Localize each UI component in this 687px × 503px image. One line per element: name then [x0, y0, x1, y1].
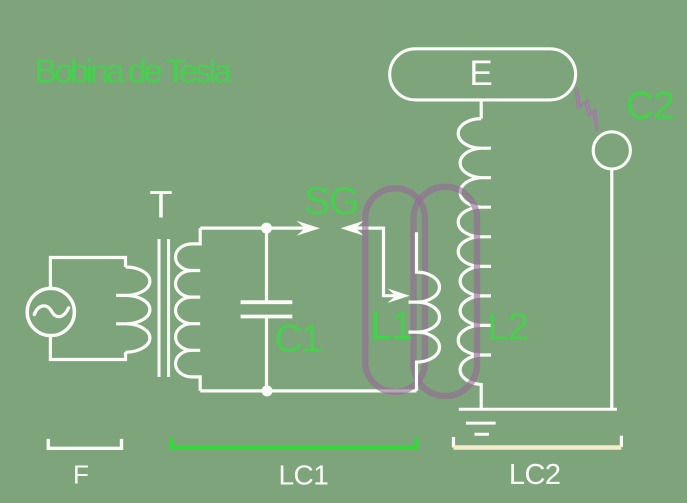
junction dot top: [261, 223, 272, 234]
coupling outline right (gray): [414, 187, 478, 396]
transformer T core: [159, 239, 169, 377]
junction dot bottom: [262, 385, 273, 396]
wire: LC1 top: [200, 227, 305, 230]
svg-text:F: F: [73, 459, 89, 489]
svg-text:SG: SG: [304, 180, 359, 223]
wire: C2 down: [610, 169, 613, 409]
svg-text:T: T: [149, 185, 172, 227]
inductor L1: [409, 232, 440, 391]
transformer T primary coil: [116, 267, 150, 352]
wire: LC1 bottom: [200, 389, 416, 392]
spark lightning bolt line 1: [575, 88, 596, 131]
svg-text:LC1: LC1: [278, 459, 328, 490]
svg-text:C1: C1: [275, 318, 321, 361]
svg-text:LC2: LC2: [509, 459, 561, 491]
svg-text:L2: L2: [488, 307, 528, 349]
bracket F: [48, 439, 121, 448]
inductor L2: [458, 119, 491, 410]
svg-text:E: E: [469, 54, 492, 93]
spark gap SG right electrode arrow: [341, 221, 364, 236]
ground: [459, 409, 617, 434]
bracket LC2 end ticks: [454, 436, 622, 448]
AC source sine symbol: [34, 306, 68, 317]
svg-text:L1: L1: [370, 305, 411, 348]
bracket LC2 (wheat line): [454, 445, 622, 450]
coupling outline left (gray): [365, 188, 425, 392]
capacitor C1 plates: [241, 302, 293, 316]
spark gap SG right electrode wire: [356, 228, 396, 296]
tap arrow into L1: [387, 288, 409, 303]
bracket LC1 (green): [172, 437, 416, 447]
svg-text:C2: C2: [626, 84, 673, 127]
svg-text:Bobina de Tesla: Bobina de Tesla: [35, 54, 233, 91]
spark lightning bolt line 2: [577, 87, 598, 130]
capacitor C1 top lead: [265, 228, 268, 302]
transformer T secondary coil: [176, 228, 201, 391]
AC source loop wires: [50, 258, 125, 360]
terminal C2 circle: [593, 132, 630, 169]
wire: E to L2: [480, 100, 483, 119]
toroid E: [390, 49, 576, 100]
AC source G1 circle: [27, 288, 74, 335]
capacitor C1 bottom lead: [265, 317, 268, 391]
spark gap SG left electrode arrow: [297, 221, 321, 236]
